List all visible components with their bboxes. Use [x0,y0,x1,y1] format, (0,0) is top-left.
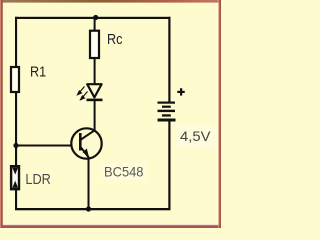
resistor Rc [90,31,99,58]
LDR [11,166,19,189]
wire right vertical upper [168,17,170,103]
wire bottom horizontal [15,208,170,210]
node base junction [13,143,18,148]
label LDR [25,172,51,188]
wire LED to transistor collector [94,101,96,131]
wire emitter to bottom [88,158,90,209]
label R1 [30,64,46,80]
svg-text:R1: R1 [30,64,46,80]
label Rc [107,32,123,48]
battery plus sign [177,88,184,95]
wire left vertical [15,17,17,210]
wire Rc to LED [94,58,96,84]
svg-text:Rc: Rc [107,32,123,48]
wire base (left rail to transistor) [16,145,72,147]
svg-text:LDR: LDR [25,172,51,188]
label BC548 [101,163,148,180]
svg-text:4,5V: 4,5V [180,128,211,144]
wire top horizontal [15,17,170,19]
node bottom junction [86,206,91,211]
svg-text:BC548: BC548 [104,164,144,180]
battery BT1 4,5V [158,102,176,122]
LED light arrows [78,87,88,100]
node top junction [93,15,98,20]
resistor R1 [11,67,19,92]
label 4,5V [177,126,217,147]
wire right vertical lower [168,121,170,211]
LED D1 [87,84,103,101]
wire middle branch top (junction to Rc) [94,17,96,32]
transistor Q1 BC548 [71,128,101,158]
